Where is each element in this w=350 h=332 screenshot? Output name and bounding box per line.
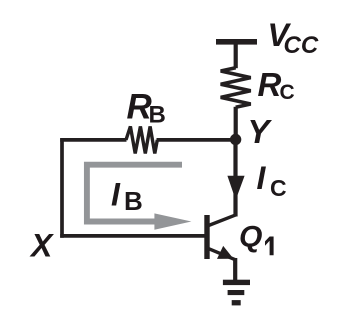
wire: bottom horizontal from X to transistor base xyxy=(60,234,206,238)
svg-text:B: B xyxy=(149,102,166,129)
svg-text:B: B xyxy=(124,186,143,216)
wire: node Y to RB right lead xyxy=(157,138,236,142)
svg-text:I: I xyxy=(257,160,267,196)
current arrow head IB xyxy=(154,213,191,229)
svg-text:X: X xyxy=(29,228,54,264)
svg-text:C: C xyxy=(270,175,287,201)
svg-text:CC: CC xyxy=(284,32,319,59)
wire: RC bottom to node Y xyxy=(234,107,238,141)
current arrow IC xyxy=(227,176,244,200)
transistor Q1 collector diagonal xyxy=(206,215,236,227)
transistor Q1 base bar xyxy=(204,215,209,259)
wire: collector vertical from node Y xyxy=(233,140,237,217)
svg-text:C: C xyxy=(280,81,295,104)
wire: left vertical branch to node X xyxy=(60,138,64,238)
transistor Q1 emitter arrow head xyxy=(217,246,234,259)
VCC supply bar xyxy=(216,39,257,45)
node Y junction dot xyxy=(230,134,241,145)
svg-text:Q: Q xyxy=(239,221,262,254)
wire: VCC bar to RC top xyxy=(234,44,238,68)
resistor RB xyxy=(126,126,157,153)
svg-text:Y: Y xyxy=(248,113,273,150)
wire: emitter to ground xyxy=(233,258,237,281)
current loop IB (gray) xyxy=(87,165,182,222)
transistor Q1 emitter diagonal xyxy=(206,248,235,260)
svg-text:R: R xyxy=(258,66,282,103)
wire: RB left lead to left corner xyxy=(60,138,126,142)
ground symbol xyxy=(223,280,250,306)
svg-text:I: I xyxy=(111,177,121,213)
resistor RC xyxy=(221,68,251,108)
